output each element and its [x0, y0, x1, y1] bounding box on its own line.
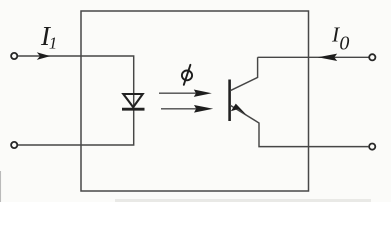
Q1 emitter arrowhead [231, 104, 247, 116]
Q1 emitter lead with wire to terminal [230, 105, 368, 146]
current arrow I0 on wire (pointing left) [318, 54, 337, 61]
terminal pin 1 (input +) [11, 53, 17, 59]
terminal pin 4 (output collector) [369, 54, 375, 60]
label phi (light flux) [182, 65, 192, 85]
light arrow 2 [161, 108, 196, 110]
current arrow I1 on wire [37, 52, 51, 60]
optocoupler package box U1 [81, 11, 309, 191]
LED D1 cathode bar [122, 108, 145, 111]
wire output top: collector to terminal [258, 56, 369, 58]
terminal pin 2 (input -) [11, 142, 17, 148]
phototransistor Q1 base bar [228, 80, 231, 122]
light arrow 1 [159, 92, 196, 94]
wire input top: terminal to LED anode [18, 56, 134, 145]
scan artifact left edge [0, 171, 2, 202]
LED D1 triangle (anode) [123, 94, 142, 107]
svg-text:I0: I0 [331, 23, 349, 55]
terminal pin 3 (output emitter) [369, 144, 375, 150]
Q1 collector lead [230, 57, 257, 90]
svg-text:I1: I1 [40, 21, 57, 53]
scan artifact bottom caption remnants [115, 199, 371, 202]
